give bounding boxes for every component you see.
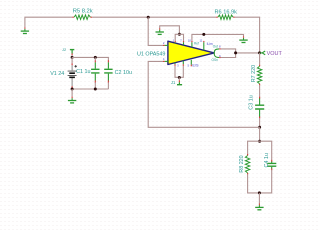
voltage source V1: [68, 57, 77, 87]
svg-text:Ref: Ref: [194, 41, 199, 45]
jumper J2: [70, 50, 74, 54]
pin 11 (Ilim): [203, 41, 205, 50]
svg-text:R5 8.2k: R5 8.2k: [73, 9, 93, 15]
wire node down to op-amp -IN pin: [148, 17, 163, 45]
pin tick (Out sense): [219, 57, 221, 59]
wire supply top rail: [72, 57, 108, 60]
svg-text:J1: J1: [171, 80, 176, 85]
wire staple to pins 1 and 7: [175, 34, 183, 41]
resistor R5: [72, 15, 92, 19]
capacitor C2: [104, 60, 112, 89]
pin 1 (top): [174, 41, 176, 43]
op-amp U1 OPA549 body: [168, 41, 214, 64]
pin tick (GND1 (top-left) terminal): [24, 27, 26, 29]
junction at R5/R6 node: [147, 16, 150, 19]
junction C1 top: [94, 56, 97, 59]
pin 5 (bottom): [182, 61, 184, 66]
wire output loop to VOUT node: [221, 49, 260, 58]
svg-text:OSn: OSn: [212, 58, 219, 62]
svg-text:R7 220: R7 220: [251, 65, 257, 82]
svg-text:R6 16.9k: R6 16.9k: [215, 10, 238, 16]
pin tick (J1 terminal): [178, 81, 180, 83]
junction output loop: [234, 51, 237, 54]
svg-text:11: 11: [200, 39, 203, 43]
output connector VOUT: [260, 51, 266, 55]
capacitor C3: [255, 85, 264, 118]
ground GND5 (below battery): [68, 98, 76, 103]
wire R6 to VOUT node: [235, 17, 260, 53]
wire staple below pins 3/5: [175, 66, 183, 77]
wire load box top rail: [248, 141, 272, 160]
wire GND2 to supply pins: [160, 26, 180, 35]
pin 8 (Out) hook: [214, 49, 219, 58]
junction above pin 11: [202, 33, 205, 36]
pin tick (GND2 (above op-amp) terminal): [159, 28, 161, 30]
wire supply bottom rail: [72, 88, 108, 90]
capacitor C4: [267, 160, 276, 170]
resistor R6: [216, 15, 235, 19]
svg-text:10: 10: [188, 39, 192, 43]
svg-text:R8 220: R8 220: [239, 155, 245, 172]
pin 4 (+IN): [163, 60, 168, 62]
pin tick (GND3 (right of op-amp) terminal): [243, 36, 245, 38]
pin tick (Out): [219, 48, 221, 50]
wire R5 to R6 (inverting input net): [92, 16, 216, 18]
junction battery - node: [71, 88, 74, 91]
pin 7 (top): [183, 41, 185, 45]
junction load top: [258, 140, 261, 143]
svg-text:C4 1u: C4 1u: [264, 153, 270, 167]
ground GND3 (right of op-amp): [239, 38, 247, 43]
wire feedback node down to load: [259, 127, 261, 141]
ground GND4 (bottom right): [255, 205, 263, 210]
junction load bottom: [258, 191, 261, 194]
jumper J1: [177, 82, 182, 85]
polarity + mark: [75, 65, 77, 67]
pin tick (J2 terminal): [71, 54, 73, 56]
pin 2 (-IN): [163, 44, 168, 46]
pin 10 (Ref): [191, 41, 193, 47]
wire junction to J1: [178, 77, 180, 80]
svg-text:U1 OPA549: U1 OPA549: [137, 51, 165, 57]
wire load box bottom rail: [248, 170, 272, 193]
resistor R7: [257, 53, 261, 85]
wire load bottom to GND4: [258, 193, 260, 204]
pin tick (GND4 (bottom right) terminal): [258, 204, 260, 206]
svg-text:E/S: E/S: [192, 63, 199, 67]
junction feedback node: [258, 126, 261, 129]
svg-text:VOUT: VOUT: [267, 51, 283, 57]
pin 6 (E/S): [190, 60, 192, 66]
svg-text:Out: Out: [213, 45, 218, 49]
resistor R8: [245, 154, 249, 174]
wire C3 to feedback node: [259, 118, 261, 127]
svg-text:V1 24: V1 24: [50, 71, 64, 77]
wire J2 to battery + node: [71, 55, 73, 57]
capacitor C1: [91, 57, 99, 89]
ground GND1 (top-left): [21, 29, 29, 34]
pin tick (GND5 (below battery) terminal): [71, 97, 73, 99]
wire battery - to GND5: [71, 89, 73, 97]
svg-text:C1 1u: C1 1u: [76, 69, 90, 75]
svg-text:C2 10u: C2 10u: [115, 70, 132, 76]
junction C1 bottom: [94, 88, 97, 91]
ground GND2 (above op-amp): [156, 30, 164, 35]
junction battery + node: [71, 56, 74, 59]
svg-text:C3 1u: C3 1u: [248, 95, 254, 109]
wire feedback to op-amp +IN: [148, 61, 259, 127]
junction below op-amp: [178, 76, 181, 79]
wire staple pins 10/11 to GND3: [192, 34, 244, 41]
wire GND1 to R5: [25, 17, 72, 27]
junction above op-amp pins 1/7: [178, 33, 181, 36]
pin 3 (bottom): [174, 63, 176, 66]
junction node VOUT: [258, 51, 261, 54]
